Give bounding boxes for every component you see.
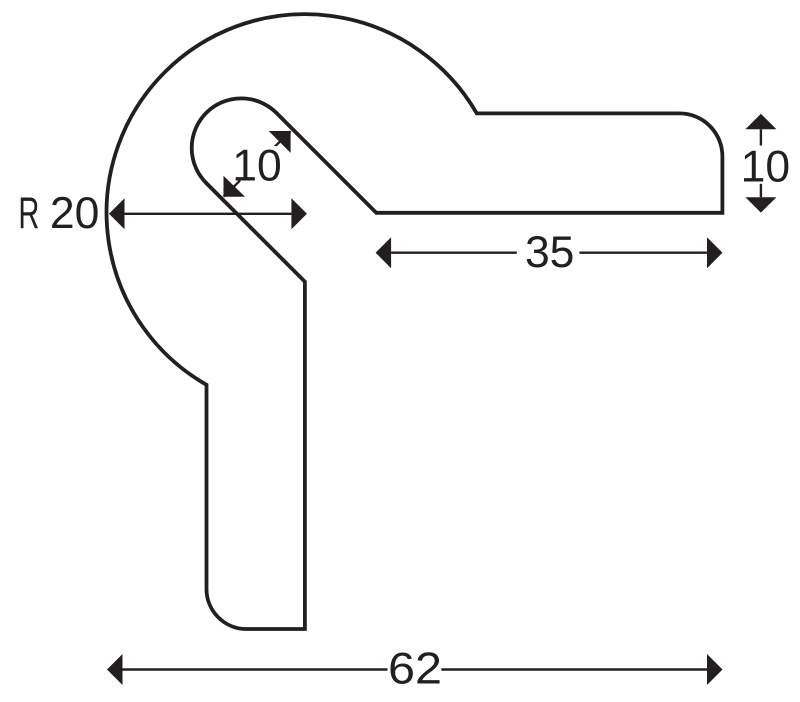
svg-text:35: 35	[525, 228, 575, 277]
svg-text:20: 20	[50, 189, 100, 238]
svg-text:R: R	[18, 189, 39, 238]
svg-text:62: 62	[388, 645, 442, 694]
svg-text:10: 10	[232, 142, 282, 191]
svg-text:10: 10	[741, 143, 791, 192]
